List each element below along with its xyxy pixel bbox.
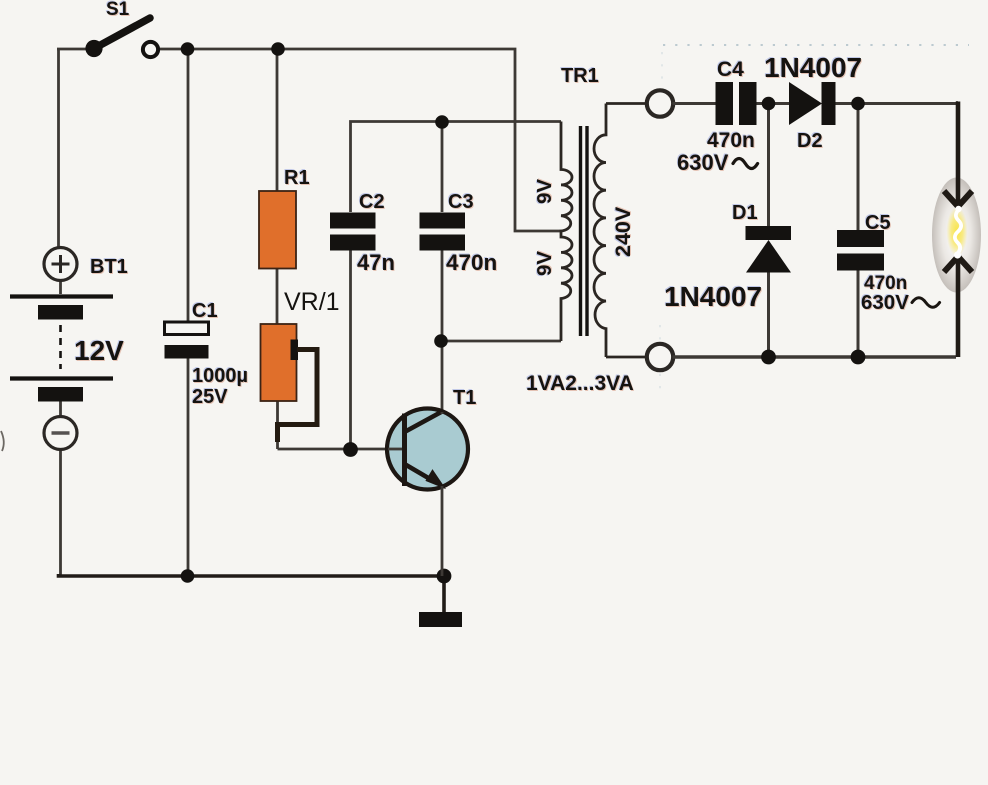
svg-text:C2: C2 [359, 191, 385, 213]
svg-text:470n: 470n [707, 129, 755, 152]
svg-text:12V: 12V [74, 335, 124, 366]
svg-text:1N4007: 1N4007 [764, 52, 862, 83]
svg-text:1VA2...3VA: 1VA2...3VA [526, 372, 634, 395]
svg-text:1000µ: 1000µ [192, 365, 248, 387]
svg-text:C4: C4 [717, 58, 744, 81]
svg-text:630V: 630V [861, 291, 909, 314]
svg-text:9V: 9V [533, 179, 556, 204]
svg-text:1N4007: 1N4007 [664, 281, 762, 312]
svg-text:630V: 630V [677, 150, 729, 175]
svg-text:C3: C3 [448, 191, 474, 213]
svg-text:25V: 25V [192, 386, 228, 408]
svg-text:470n: 470n [446, 250, 497, 275]
svg-text:D1: D1 [732, 202, 758, 224]
svg-text:47n: 47n [357, 250, 395, 275]
svg-text:D2: D2 [797, 130, 823, 152]
svg-text:C1: C1 [192, 300, 218, 322]
svg-text:9V: 9V [533, 251, 556, 276]
svg-text:C5: C5 [865, 212, 891, 234]
svg-text:240V: 240V [611, 206, 635, 257]
svg-text:R1: R1 [284, 167, 310, 189]
svg-text:T1: T1 [453, 387, 476, 409]
svg-text:S1: S1 [106, 0, 130, 20]
svg-text:TR1: TR1 [561, 65, 599, 87]
svg-text:VR/1: VR/1 [284, 288, 340, 316]
svg-text:BT1: BT1 [90, 256, 128, 278]
